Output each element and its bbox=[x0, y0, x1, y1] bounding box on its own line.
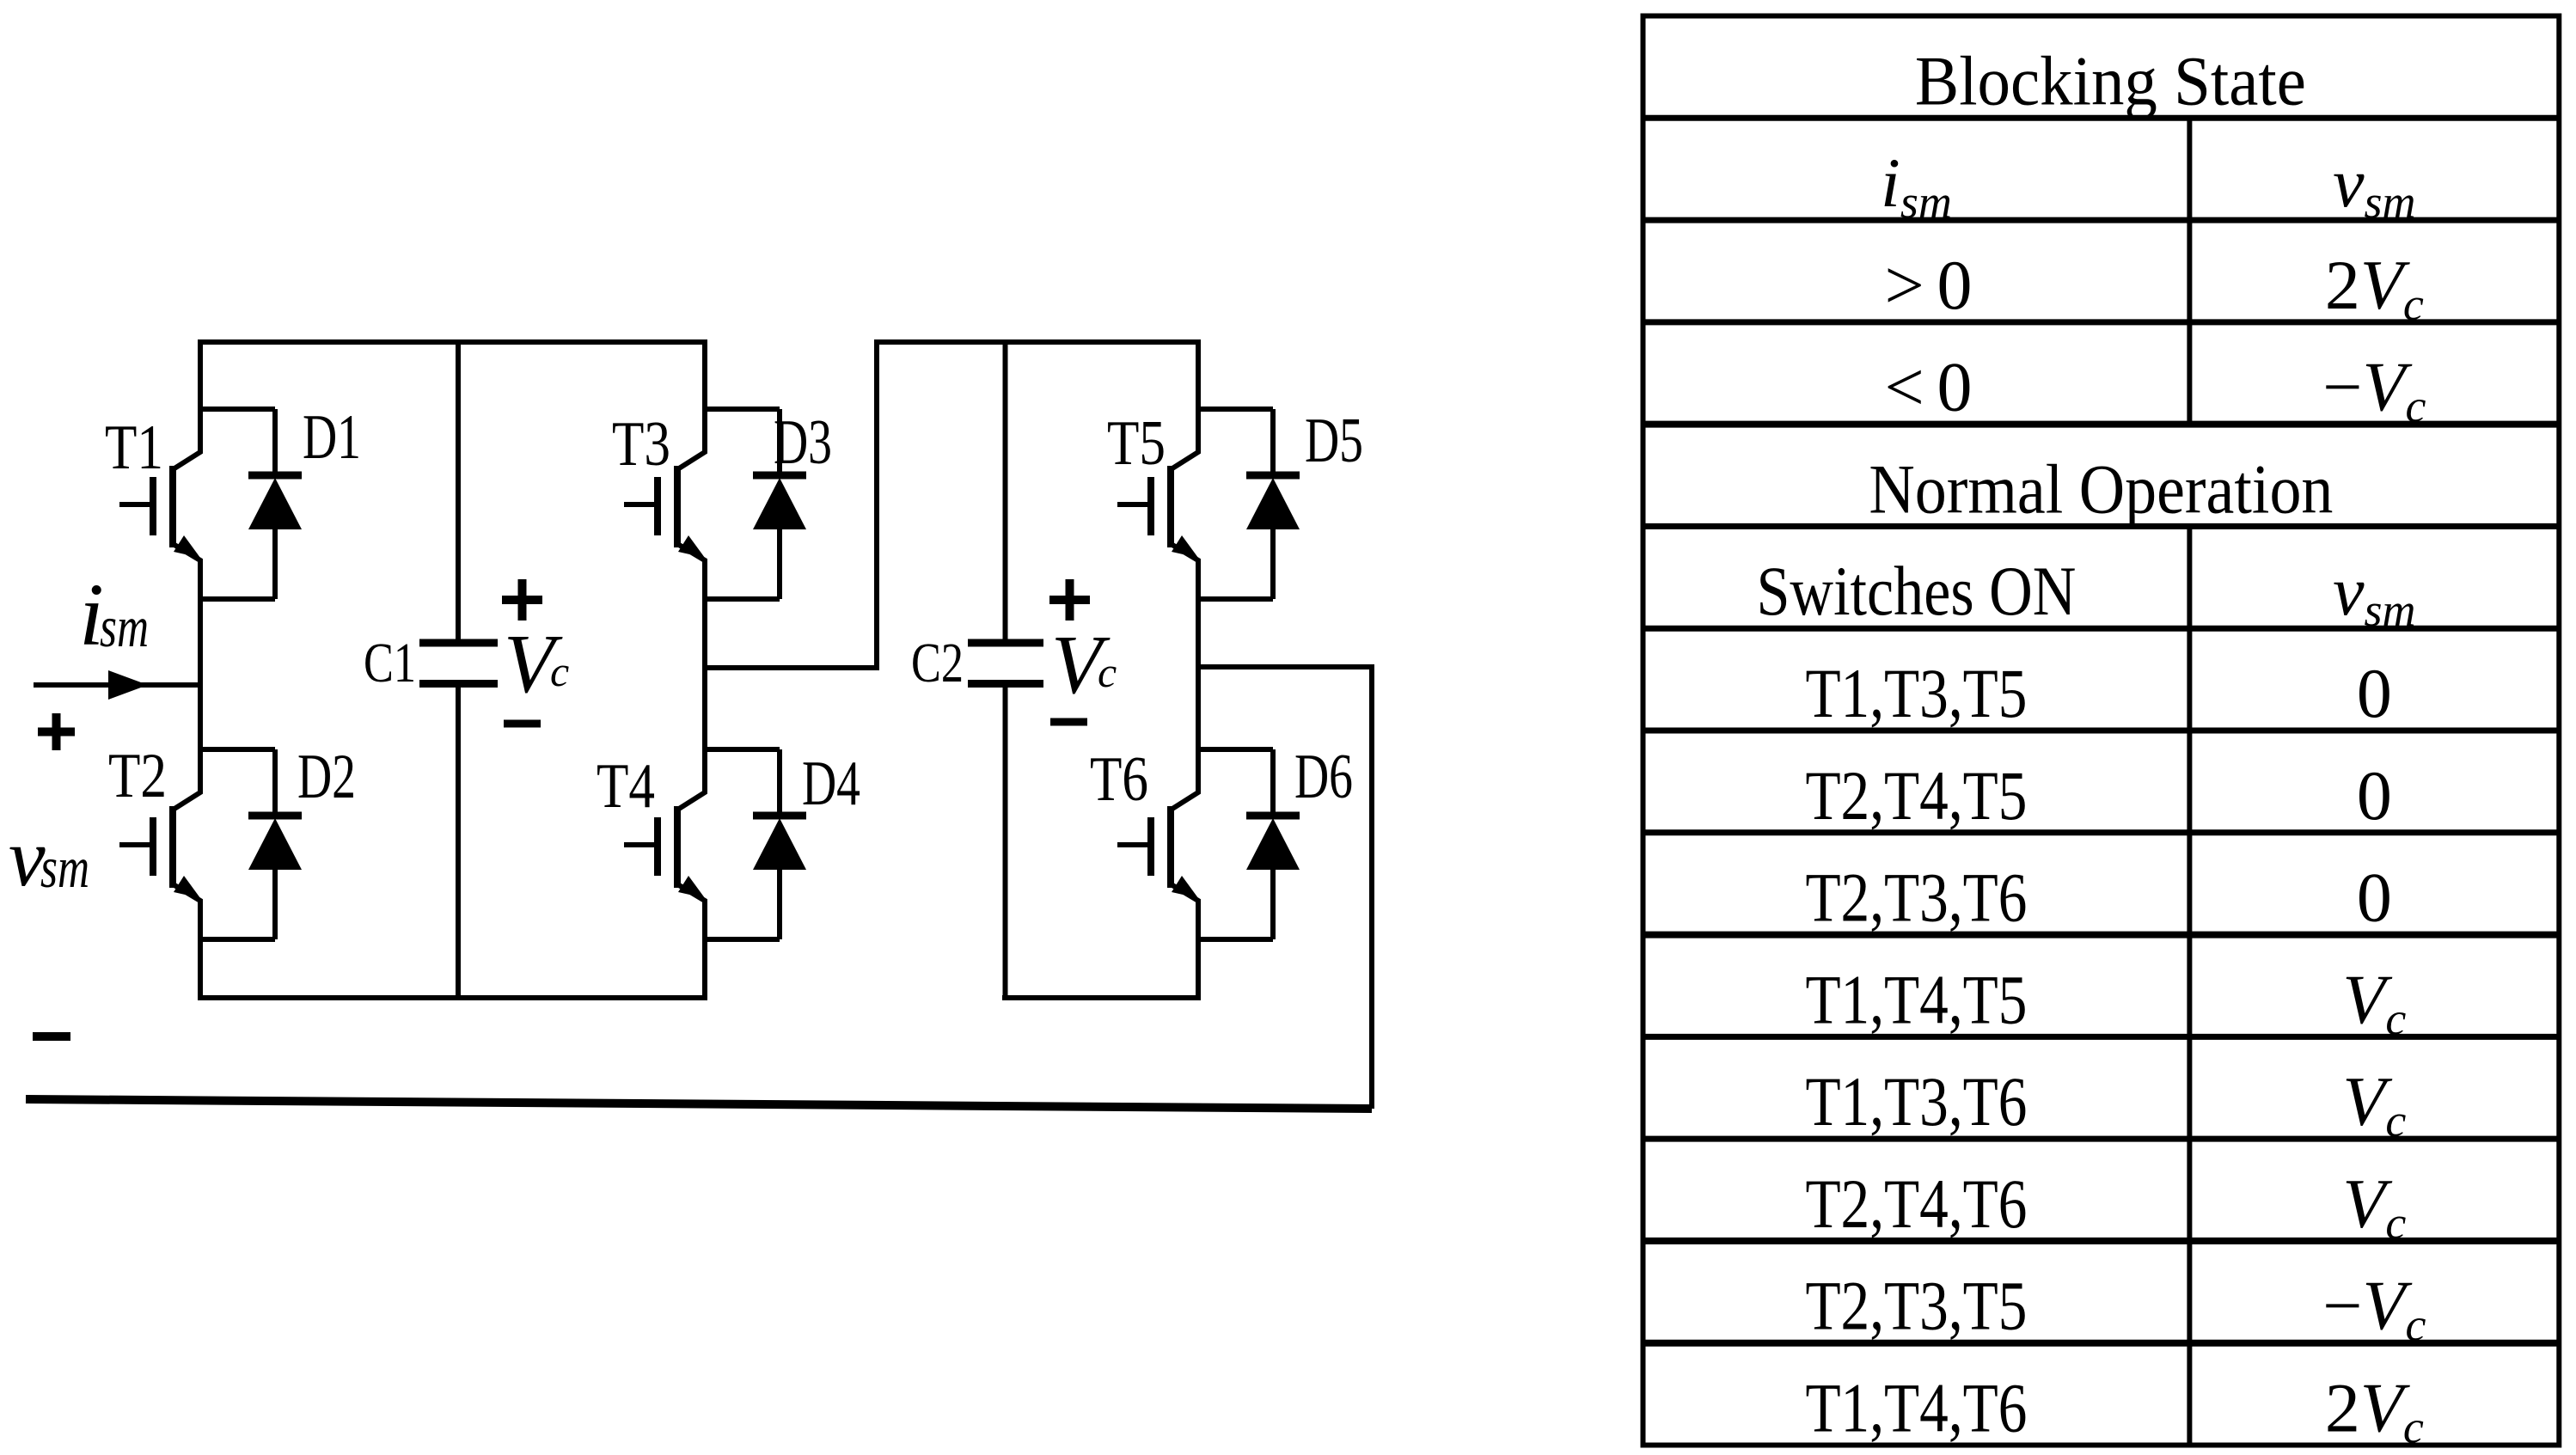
table row line 4 bbox=[1643, 421, 2560, 428]
wire right leg lower (T6 to bottom rail2) bbox=[1196, 937, 1201, 1000]
svg-text:0: 0 bbox=[2357, 756, 2392, 834]
table column divider (lower) bbox=[2187, 526, 2192, 1445]
table row line 1 bbox=[1643, 115, 2560, 121]
svg-text:T3: T3 bbox=[612, 409, 670, 480]
wire mid leg upper (rail to T3) bbox=[702, 339, 707, 412]
wire left leg upper (rail to T1) bbox=[198, 339, 203, 412]
svg-text:0: 0 bbox=[2357, 654, 2392, 732]
svg-text:T1: T1 bbox=[105, 413, 163, 483]
table row line 9 bbox=[1643, 932, 2560, 938]
wire right leg centre (T5 to T6, node) bbox=[1196, 596, 1201, 752]
table row line 3 bbox=[1643, 319, 2560, 325]
svg-text:sm: sm bbox=[100, 594, 149, 659]
wire C2 top lead bbox=[1003, 339, 1008, 643]
capacitor C1 bbox=[419, 643, 498, 684]
svg-text:D5: D5 bbox=[1305, 406, 1363, 476]
svg-text:c: c bbox=[1098, 648, 1117, 696]
capacitor C2 bbox=[968, 643, 1043, 684]
wire left leg mid (T1 to T2, i_sm node) bbox=[198, 596, 203, 752]
svg-text:T2: T2 bbox=[108, 741, 167, 811]
svg-text:D2: D2 bbox=[297, 742, 356, 812]
table row line 2 bbox=[1643, 217, 2560, 223]
wire C1 bottom lead bbox=[456, 683, 461, 1000]
transistor T3 (IGBT) bbox=[612, 409, 705, 599]
diode D2 bbox=[200, 742, 356, 939]
svg-text:T1,T3,T5: T1,T3,T5 bbox=[1805, 654, 2027, 732]
diode D5 bbox=[1198, 406, 1363, 599]
svg-text:T2,T3,T5: T2,T3,T5 bbox=[1805, 1267, 2027, 1345]
diode D1 bbox=[200, 402, 361, 599]
transistor T4 (IGBT) bbox=[597, 749, 705, 939]
diode D4 bbox=[705, 749, 860, 939]
table row line 8 bbox=[1643, 829, 2560, 835]
table row line 13 bbox=[1643, 1340, 2560, 1347]
table row line 12 bbox=[1643, 1238, 2560, 1244]
table column divider (upper) bbox=[2187, 118, 2192, 424]
table row line 5 bbox=[1643, 523, 2560, 529]
svg-text:T1,T3,T6: T1,T3,T6 bbox=[1805, 1062, 2027, 1140]
transistor T2 (IGBT) bbox=[108, 741, 200, 939]
transistor T5 (IGBT) bbox=[1107, 408, 1198, 599]
svg-text:T2,T4,T6: T2,T4,T6 bbox=[1805, 1165, 2027, 1243]
svg-text:D6: D6 bbox=[1294, 742, 1353, 812]
svg-text:C1: C1 bbox=[364, 632, 416, 694]
diode D6 bbox=[1198, 742, 1353, 939]
wire right output wire down bbox=[1369, 664, 1374, 1109]
svg-text:T5: T5 bbox=[1107, 408, 1166, 479]
wire cell2 top rail bbox=[874, 339, 1201, 345]
wire node link T5/T6 to right wire bbox=[1196, 664, 1374, 669]
plus sign (C2 voltage polarity) bbox=[1049, 579, 1090, 621]
table outer border bbox=[1643, 16, 2560, 1446]
svg-text:T1,T4,T6: T1,T4,T6 bbox=[1805, 1369, 2027, 1447]
wire cell1 bottom rail bbox=[198, 995, 707, 1000]
wire left leg lower (T2 to bottom rail) bbox=[198, 937, 203, 1000]
table row line 10 bbox=[1643, 1034, 2560, 1040]
svg-text:T4: T4 bbox=[597, 751, 655, 822]
i_sm arrowhead bbox=[108, 670, 148, 700]
svg-text:T6: T6 bbox=[1090, 744, 1148, 815]
wire C2 bottom lead bbox=[1003, 683, 1008, 1000]
input minus sign (v_sm polarity) bbox=[33, 1032, 70, 1041]
diode D3 bbox=[705, 407, 832, 599]
table row line 6 bbox=[1643, 626, 2560, 632]
transistor T1 (IGBT) bbox=[105, 409, 200, 599]
svg-text:0: 0 bbox=[2357, 859, 2392, 937]
svg-text:T2,T4,T5: T2,T4,T5 bbox=[1805, 756, 2027, 834]
svg-text:D1: D1 bbox=[303, 402, 361, 473]
minus sign (C1 voltage polarity) bbox=[504, 720, 541, 728]
svg-text:D3: D3 bbox=[774, 407, 832, 478]
table row line 11 bbox=[1643, 1136, 2560, 1142]
wire C1 top lead bbox=[456, 339, 461, 643]
wire right leg upper (rail2 to T5) bbox=[1196, 339, 1201, 412]
minus sign (C2 voltage polarity) bbox=[1050, 718, 1087, 726]
wire bottom return wire bbox=[26, 1099, 1372, 1109]
svg-text:Switches ON: Switches ON bbox=[1756, 552, 2076, 630]
wire node link cell1 output to cell2 bbox=[702, 665, 879, 670]
wire cell2 bottom rail bbox=[1002, 995, 1201, 1000]
wire mid leg centre (T3 to T4, output node) bbox=[702, 596, 707, 752]
wire cell2 left drop leg bbox=[874, 339, 879, 670]
wire mid leg lower (T4 to bottom rail) bbox=[702, 937, 707, 1000]
svg-text:T1,T4,T5: T1,T4,T5 bbox=[1805, 960, 2027, 1038]
plus sign (C1 voltage polarity) bbox=[502, 579, 542, 621]
svg-text:sm: sm bbox=[40, 834, 89, 900]
wire cell1 top rail bbox=[198, 339, 707, 345]
svg-text:Blocking State: Blocking State bbox=[1915, 41, 2306, 119]
wire i_sm input wire bbox=[34, 682, 200, 688]
svg-text:T2,T3,T6: T2,T3,T6 bbox=[1805, 859, 2027, 937]
input plus sign (v_sm polarity) bbox=[38, 713, 75, 750]
transistor T6 (IGBT) bbox=[1090, 744, 1198, 939]
svg-text:Normal Operation: Normal Operation bbox=[1869, 449, 2333, 528]
svg-text:D4: D4 bbox=[802, 749, 860, 819]
svg-text:C2: C2 bbox=[911, 632, 964, 694]
svg-text:c: c bbox=[550, 647, 569, 695]
table row line 7 bbox=[1643, 728, 2560, 734]
